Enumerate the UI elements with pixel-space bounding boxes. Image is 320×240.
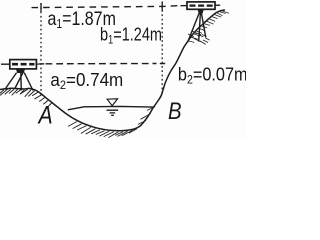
telescope inner dashed axis bbox=[12, 63, 35, 66]
hatching under right tripod bbox=[188, 31, 210, 45]
telescope body bbox=[10, 60, 37, 69]
tick at staff A crossing bbox=[39, 63, 44, 65]
telescope axis stubs bbox=[181, 4, 221, 7]
tripod legs bbox=[5, 73, 33, 91]
telescope inner dashed axis bbox=[190, 4, 214, 6]
lower sight line (dashed) bbox=[46, 63, 157, 65]
svg-text:B: B bbox=[168, 97, 182, 124]
ground profile (banks and river bed) bbox=[0, 10, 225, 131]
tick at staff B crossing bbox=[160, 63, 165, 65]
telescope body bbox=[187, 2, 215, 9]
hatching right bank bbox=[189, 11, 229, 42]
staff at B (dotted vertical) bbox=[161, 2, 163, 96]
level instrument 2 (right) bbox=[181, 2, 221, 42]
tripod legs bbox=[188, 13, 206, 42]
svg-text:A: A bbox=[37, 101, 53, 129]
tripod head bbox=[16, 69, 25, 73]
water level symbol dashes bbox=[107, 110, 119, 115]
telescope axis stubs bbox=[1, 63, 39, 65]
hatching left bank bbox=[0, 89, 52, 109]
level instrument 1 (left) bbox=[1, 60, 39, 91]
tick at staff B top crossing bbox=[161, 2, 163, 12]
staff at A (dotted vertical) bbox=[40, 3, 42, 96]
tripod head bbox=[198, 9, 204, 13]
water level symbol (inverted triangle) bbox=[107, 99, 117, 106]
hatching river bed bbox=[68, 107, 155, 138]
upper sight line (dashed) bbox=[32, 6, 182, 8]
tick at staff A top crossing bbox=[40, 3, 42, 12]
water surface line bbox=[68, 106, 153, 109]
